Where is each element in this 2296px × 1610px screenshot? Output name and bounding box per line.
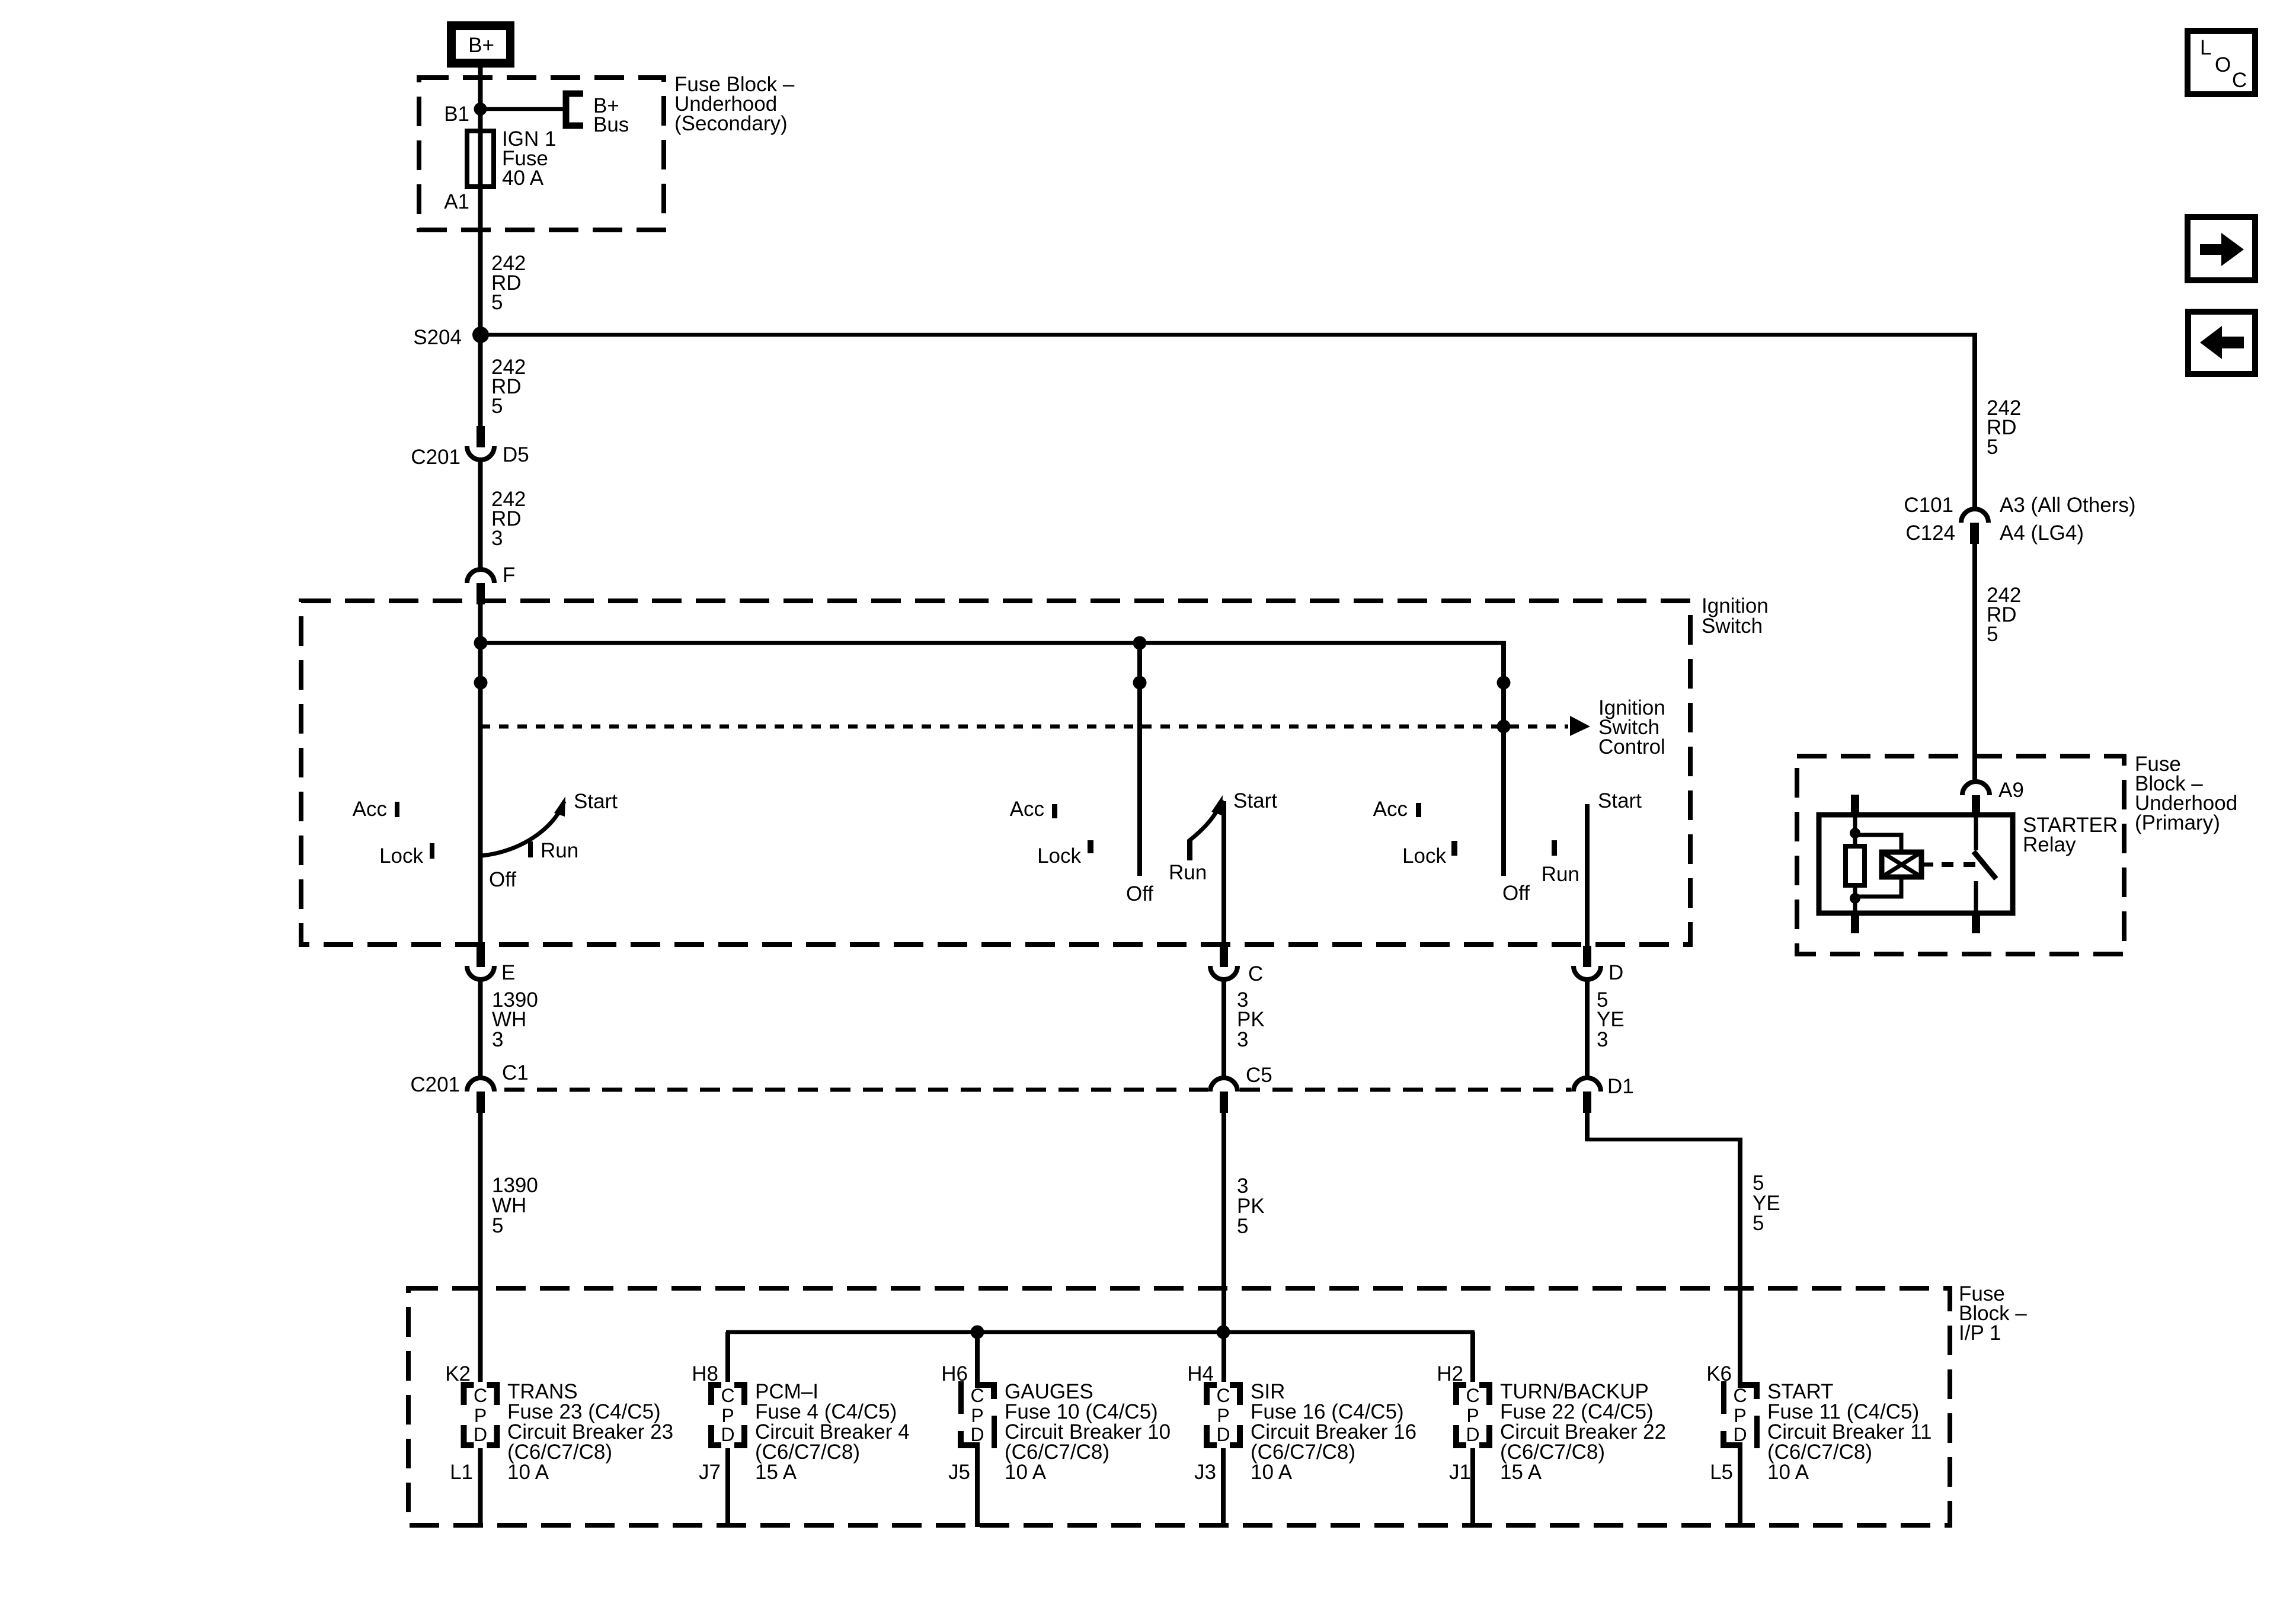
wire label 3 PK 3: [1237, 988, 1265, 1051]
svg-text:5: 5: [491, 291, 503, 314]
connector C201 pin D5: [411, 426, 529, 469]
svg-text:L1: L1: [450, 1461, 473, 1484]
svg-text:F: F: [503, 564, 515, 587]
svg-text:C: C: [1216, 1385, 1230, 1406]
wire internal bus to sections 2 and 3: [481, 641, 1506, 645]
power symbol B+: [447, 21, 514, 68]
wire B1 to B+ bus: [480, 107, 564, 111]
connector C: [1210, 946, 1263, 985]
svg-text:L5: L5: [1710, 1461, 1733, 1484]
wire label 5 YE 3: [1597, 988, 1625, 1051]
fuse block underhood primary dashed box: [1797, 756, 2124, 954]
wire D5 to F: [478, 460, 483, 569]
svg-text:P: P: [721, 1405, 734, 1426]
svg-text:L: L: [2200, 36, 2211, 59]
connector E: [467, 946, 515, 984]
svg-text:S204: S204: [413, 326, 462, 349]
wire C to C5: [1221, 981, 1226, 1078]
wire to relay coil: [1855, 835, 1901, 852]
wire coil to linkage: [1921, 863, 1933, 867]
label Fuse Block I/P 1: [1959, 1282, 2027, 1345]
fuse SIR (Fuse 16) pins H4 J3: [1187, 1362, 1416, 1527]
svg-text:K6: K6: [1706, 1362, 1732, 1385]
node B1 junction: [474, 103, 487, 116]
svg-text:Lock: Lock: [1037, 844, 1081, 868]
connector A9: [1962, 779, 2024, 817]
wire internal feed bus in fuse block: [726, 1330, 1475, 1334]
svg-text:I/P 1: I/P 1: [1959, 1321, 2001, 1345]
svg-text:D: D: [721, 1424, 734, 1445]
svg-text:Acc: Acc: [353, 798, 387, 821]
svg-text:D1: D1: [1607, 1075, 1634, 1098]
svg-text:Off: Off: [489, 868, 516, 891]
svg-text:C: C: [970, 1385, 984, 1406]
svg-text:P: P: [1466, 1405, 1479, 1426]
dashed C201 harness line: [504, 1088, 1208, 1092]
fuse block underhood secondary dashed box: [419, 78, 664, 230]
wire E to C1: [478, 981, 483, 1078]
label Fuse Block Underhood (Primary): [2135, 753, 2237, 834]
svg-text:C101: C101: [1904, 494, 1953, 517]
svg-text:P: P: [1217, 1405, 1229, 1426]
junction dot wiper section 2: [1133, 676, 1147, 690]
svg-text:C: C: [721, 1385, 734, 1406]
svg-text:J3: J3: [1194, 1461, 1216, 1484]
svg-text:Acc: Acc: [1010, 798, 1044, 821]
svg-text:C: C: [1733, 1385, 1747, 1406]
switch arm section 1: [482, 801, 564, 856]
wire D to D1: [1585, 981, 1590, 1078]
arrowhead switch arm section 2: [1211, 795, 1223, 815]
svg-text:B1: B1: [444, 103, 469, 126]
label Ignition Switch: [1702, 594, 1769, 638]
svg-text:C124: C124: [1905, 521, 1955, 545]
svg-text:P: P: [1734, 1405, 1746, 1426]
resistor in relay: [1846, 846, 1865, 885]
svg-text:10 A: 10 A: [1767, 1461, 1809, 1484]
wire drop H8: [725, 1332, 730, 1382]
svg-text:J5: J5: [948, 1461, 970, 1484]
arrow box right: [2188, 217, 2255, 280]
svg-text:B+: B+: [468, 34, 494, 57]
wire S204 bus to right side: [481, 333, 1977, 337]
B+ bus bar: [566, 94, 583, 126]
label Fuse Block Underhood (Secondary): [674, 73, 795, 135]
svg-text:Lock: Lock: [1402, 844, 1446, 868]
svg-text:(Primary): (Primary): [2135, 811, 2220, 834]
wire label 242 RD 5 (right branch upper): [1987, 396, 2021, 459]
wire drop H6: [975, 1332, 980, 1382]
svg-text:10 A: 10 A: [1251, 1461, 1293, 1484]
svg-text:D: D: [474, 1424, 487, 1445]
svg-text:15 A: 15 A: [1500, 1461, 1542, 1484]
svg-text:C: C: [2232, 69, 2247, 92]
junction dot wiper section 3: [1497, 676, 1511, 690]
svg-text:C: C: [1466, 1385, 1479, 1406]
svg-text:D: D: [1216, 1424, 1230, 1445]
svg-text:Relay: Relay: [2023, 833, 2076, 856]
arrow ignition switch control: [1570, 716, 1590, 736]
fuse PCM-I (Fuse 4) pins H8 J7: [692, 1362, 909, 1527]
relay coil pin top stub: [1851, 795, 1859, 817]
svg-text:3: 3: [1237, 1028, 1248, 1051]
wire B+ to fuse block (through B1, IGN1 fuse, to connector D5): [478, 68, 483, 427]
svg-text:D: D: [1466, 1424, 1479, 1445]
fuse block I/P 1 dashed box: [408, 1288, 1950, 1525]
svg-text:A9: A9: [1998, 779, 2024, 802]
junction dot control line section 3: [1497, 720, 1511, 734]
junction dot bus section 2: [1133, 636, 1147, 650]
svg-text:P: P: [971, 1405, 983, 1426]
ignition switch dashed box: [301, 601, 1690, 945]
svg-text:3: 3: [492, 1028, 503, 1051]
svg-text:Off: Off: [1126, 882, 1153, 905]
fuse TURN/BACKUP (Fuse 22) pins H2 J1: [1437, 1362, 1666, 1527]
wire label 242 RD 5 (right branch lower): [1987, 584, 2021, 646]
svg-text:A3 (All Others): A3 (All Others): [2000, 494, 2136, 517]
svg-text:Lock: Lock: [379, 844, 423, 868]
svg-text:D5: D5: [503, 443, 529, 466]
relay switch contact upper: [1974, 817, 1978, 850]
wire section 3 output Start to D: [1585, 804, 1590, 946]
wire label 242 RD 3: [491, 488, 526, 550]
svg-text:C1: C1: [502, 1061, 529, 1084]
fuse TRANS (Fuse 23) pins K2 L1: [445, 1362, 673, 1527]
wire C1 to fuse block TRANS: [478, 1113, 483, 1382]
connector C101 C124 pins A3 A4: [1904, 494, 2135, 545]
arrow box left: [2188, 312, 2255, 374]
junction dot bus section 1: [474, 636, 488, 650]
dashed mechanical linkage: [1942, 862, 1980, 867]
wire label 5 YE 5: [1753, 1172, 1780, 1235]
svg-text:D: D: [970, 1424, 984, 1445]
svg-text:Acc: Acc: [1373, 798, 1408, 821]
wire C101 to A9: [1972, 544, 1977, 782]
svg-text:J7: J7: [699, 1461, 721, 1484]
dashed ignition switch control line: [481, 725, 1568, 729]
wire label 1390 WH 3: [492, 988, 538, 1051]
svg-text:Control: Control: [1598, 735, 1665, 758]
svg-text:5: 5: [1237, 1215, 1248, 1238]
LOC reference box: [2188, 31, 2255, 94]
svg-text:Run: Run: [1542, 863, 1579, 886]
svg-text:Run: Run: [1169, 861, 1207, 884]
relay coil pin bottom stub: [1851, 911, 1859, 933]
svg-text:3: 3: [1597, 1028, 1608, 1051]
svg-text:C: C: [474, 1385, 487, 1406]
svg-text:5: 5: [491, 395, 503, 418]
svg-text:(Secondary): (Secondary): [674, 112, 788, 135]
connector D: [1574, 946, 1623, 984]
wire label 1390 WH 5: [492, 1174, 538, 1237]
wire C5 to fuse block SIR: [1221, 1113, 1226, 1382]
wire label 242 RD 5: [491, 252, 526, 314]
svg-text:O: O: [2215, 53, 2231, 76]
fuse START (Fuse 11) pins K6 L5: [1706, 1362, 1932, 1527]
svg-text:D: D: [1733, 1424, 1747, 1445]
wire section 2 output Start to C: [1221, 801, 1226, 946]
svg-text:10 A: 10 A: [507, 1461, 549, 1484]
svg-text:A4 (LG4): A4 (LG4): [2000, 521, 2084, 545]
wire ignition switch common (section 1): [478, 603, 483, 946]
svg-text:C201: C201: [411, 446, 461, 469]
label B+ Bus: [593, 94, 629, 136]
wire label 242 RD 5: [491, 356, 526, 418]
svg-text:Bus: Bus: [593, 113, 629, 136]
svg-text:5: 5: [492, 1214, 503, 1237]
svg-text:Switch: Switch: [1702, 614, 1763, 638]
wire section 2 drop: [1137, 643, 1142, 876]
svg-text:5: 5: [1987, 436, 1998, 459]
switch arm section 2: [1188, 800, 1222, 841]
svg-text:H6: H6: [941, 1362, 968, 1385]
relay switch contact lower: [1974, 881, 1978, 913]
relay coil (box with X): [1882, 852, 1921, 877]
wire D1 jog to fuse block START: [1585, 1113, 1590, 1141]
svg-text:3: 3: [491, 527, 503, 550]
svg-text:C: C: [1248, 962, 1263, 985]
svg-text:J1: J1: [1449, 1461, 1471, 1484]
wire label 3 PK 5: [1237, 1174, 1265, 1238]
connector C201 pin C5: [1210, 1064, 1272, 1113]
connector C201 pin C1: [410, 1061, 528, 1113]
svg-text:10 A: 10 A: [1005, 1461, 1047, 1484]
svg-text:5: 5: [1753, 1212, 1764, 1235]
junction dot H4: [1217, 1326, 1230, 1339]
svg-text:Start: Start: [1598, 789, 1642, 812]
svg-text:A1: A1: [444, 190, 469, 213]
svg-text:C201: C201: [410, 1073, 460, 1096]
relay coil branch wiring: [1853, 817, 1857, 846]
svg-text:D: D: [1609, 961, 1623, 984]
node S204 splice: [472, 327, 489, 343]
svg-text:15 A: 15 A: [755, 1461, 797, 1484]
relay STARTER box: [1819, 815, 2013, 913]
fuse GAUGES (Fuse 10) pins H6 J5: [941, 1362, 1171, 1527]
junction dot H6: [971, 1326, 984, 1339]
svg-text:40 A: 40 A: [502, 167, 544, 190]
connector C201 pin D1: [1574, 1075, 1634, 1113]
svg-text:P: P: [474, 1405, 487, 1426]
svg-text:C5: C5: [1246, 1064, 1272, 1087]
relay switch pin bottom stub: [1972, 911, 1980, 933]
wire drop H2: [1470, 1332, 1475, 1382]
arrowhead switch arm section 1: [554, 796, 565, 817]
svg-text:Off: Off: [1502, 882, 1530, 905]
relay switch blade: [1974, 852, 1996, 879]
connector F into ignition switch: [467, 564, 515, 604]
svg-text:Start: Start: [1233, 789, 1277, 812]
svg-text:5: 5: [1987, 623, 1998, 646]
svg-text:Start: Start: [574, 790, 618, 813]
svg-text:E: E: [501, 961, 515, 984]
junction dot wiper section 1: [474, 676, 488, 690]
svg-text:Run: Run: [541, 839, 578, 862]
fuse IGN 1 40 A: [467, 131, 494, 187]
